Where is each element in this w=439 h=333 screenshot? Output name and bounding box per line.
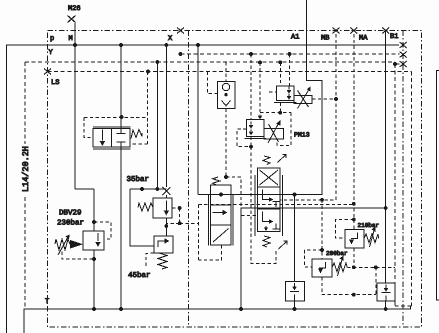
valve 2/2 pilot operated body	[93, 129, 130, 148]
PM13 left box flange	[245, 138, 266, 140]
plug X LS	[44, 69, 51, 75]
svg-text:LS: LS	[51, 79, 59, 87]
center valve bottom cell elbows	[263, 212, 271, 222]
dashed stub y215 under center valve	[241, 214, 258, 216]
svg-text:p: p	[50, 35, 54, 43]
left valve below dashed	[198, 205, 221, 261]
svg-text:45bar: 45bar	[128, 271, 151, 280]
DBV29 pilot dashed	[62, 222, 111, 259]
relief valve 210bar body	[345, 230, 364, 249]
relief 200bar spring	[332, 263, 347, 272]
shuttle check seat arrow	[222, 101, 231, 106]
PM13 right pilot loop dashed	[277, 103, 291, 146]
svg-text:X: X	[168, 35, 173, 43]
MB pilot line dashed	[281, 34, 337, 200]
throttle X on 35bar line	[162, 187, 170, 195]
test point X M26	[68, 16, 76, 23]
top right variable throttle body	[294, 96, 312, 104]
relief 45bar drain dashed	[146, 253, 154, 268]
svg-text:DBV29: DBV29	[59, 209, 82, 218]
wire LS dashed rail y54	[180, 53, 399, 55]
dash-dot section divider	[188, 31, 190, 328]
wire right dashed drop x395	[394, 64, 396, 306]
directional valve center body	[258, 168, 281, 232]
svg-text:200bar: 200bar	[326, 250, 348, 257]
svg-text:Y: Y	[49, 49, 54, 57]
relief valve DBV29 body	[83, 231, 104, 250]
left valve top spring	[213, 177, 220, 185]
inner dash-dot boundary right edge	[402, 31, 404, 328]
PM13 left pilot loop dashed	[237, 129, 251, 147]
relief 35bar spring	[138, 203, 153, 211]
pilot dashed bridge y112.7	[260, 112, 291, 114]
center valve mid cell elbows	[263, 190, 271, 200]
svg-text:L14/20.2H: L14/20.2H	[21, 146, 31, 192]
relief 210bar internal arrow	[351, 233, 358, 239]
center valve bottom spring	[263, 236, 270, 247]
wire T return line	[24, 306, 411, 333]
relief valve 35bar body	[153, 198, 172, 218]
left valve bottom diagonal	[213, 229, 229, 243]
svg-text:210bar: 210bar	[358, 222, 380, 229]
wire Y dashed rail y62	[25, 62, 395, 64]
plug X MB	[333, 28, 340, 34]
svg-text:230bar: 230bar	[57, 219, 84, 228]
shuttle check ball	[222, 83, 229, 90]
wire x198 P to A-rail	[197, 45, 199, 195]
wire x157 from LS rail down	[156, 62, 158, 189]
wire 35bar feed x166	[165, 45, 167, 236]
wire dashed shuttle to B corner	[226, 177, 241, 208]
shuttle check valve body	[218, 82, 235, 109]
center valve top spring	[263, 156, 270, 165]
center valve dashed wrap below	[251, 147, 276, 264]
relief 45bar spring	[158, 253, 167, 269]
svg-text:MB: MB	[321, 35, 329, 43]
dash-dot block boundary box	[48, 31, 422, 328]
relief 200bar drain dashed	[322, 277, 376, 295]
relief 45bar internal arrow	[158, 241, 165, 247]
wire B rail y208 and down to T	[241, 208, 386, 309]
svg-text:B1: B1	[390, 33, 398, 41]
wire M26 down to M port and DBV29	[75, 23, 94, 231]
wire Y line left drop x25	[24, 62, 26, 308]
svg-text:M26: M26	[68, 5, 81, 13]
outer solid frame border	[7, 45, 400, 333]
center valve bottom lever	[279, 242, 287, 250]
relief valve 210bar pilot loop dashed	[336, 220, 354, 239]
wire valve line x121	[120, 45, 122, 309]
DBV29 spring	[55, 239, 70, 250]
wire right dashed drop x411.5	[395, 72, 412, 307]
relief valve 45bar body	[154, 236, 173, 253]
relief 35bar pilot dashed	[166, 208, 198, 223]
top right valve pilot feeds dashed	[280, 54, 289, 86]
wire B1 port line	[385, 31, 387, 309]
relief 200bar internal arrow	[319, 262, 326, 268]
top right valve left stub dashed	[269, 91, 277, 93]
wire LS dashed rail y71.5	[48, 71, 412, 73]
valve 2/2 pilot dashed lines	[84, 72, 148, 145]
wire DBV29 outlet down to T	[93, 250, 95, 309]
valve 2/2 spring	[131, 130, 142, 139]
svg-text:PM13: PM13	[294, 132, 310, 139]
wire dashed x322 down to 200bar relief	[321, 200, 323, 259]
relief 35bar internal arrow	[165, 201, 167, 212]
relief 200bar adjust arrow	[338, 258, 343, 276]
PM13 pilot arrow from x260	[259, 62, 261, 115]
svg-text:MA: MA	[359, 35, 368, 43]
right edge partial block	[437, 71, 439, 301]
relief 210bar spring	[364, 234, 379, 243]
top right throttle output dashed	[312, 98, 336, 100]
top right valve internal arrows	[288, 87, 290, 97]
relief 210bar adjust arrow	[370, 229, 375, 247]
svg-text:M: M	[69, 35, 73, 43]
relief 200bar pilot loop dashed	[305, 250, 323, 267]
shuttle pilot dashed connections	[207, 62, 226, 177]
valve 2/2 right cell blocked	[117, 129, 126, 148]
PM13 through arrow	[250, 122, 252, 132]
drain mesh dashed right bottom	[347, 267, 395, 294]
valve 2/2 left cell flow arrow	[101, 130, 103, 141]
left valve mid arrow	[213, 212, 224, 214]
top right throttle X diagonal arrow	[298, 89, 310, 109]
directional valve left body	[211, 185, 232, 245]
wire plugged stub y54 solid end	[395, 63, 400, 65]
PM13 throttle X diagonal arrow	[268, 123, 279, 144]
reducing valve top right body	[277, 86, 295, 101]
relief 210bar outlet dashed	[353, 248, 355, 267]
wire A1 from top + A-rail y194.5	[198, 0, 322, 195]
DBV29 adjust arrow	[58, 237, 68, 255]
relief valve 200bar body	[312, 259, 332, 277]
plug X MA	[350, 28, 357, 34]
center valve top cell X	[260, 170, 279, 185]
svg-text:35bar: 35bar	[127, 175, 150, 184]
plug X port X on boundary	[177, 28, 184, 34]
plug orifice box left	[285, 282, 304, 301]
plug X right stub y45	[400, 42, 407, 48]
DBV29 pilot cone	[70, 240, 83, 249]
svg-text:A1: A1	[291, 34, 299, 42]
plug X right stub y64	[400, 61, 407, 67]
svg-text:T: T	[45, 298, 49, 306]
LS bridge dashed y204	[198, 204, 353, 206]
center valve top lever	[278, 155, 286, 163]
PM13 variable throttle body	[264, 129, 283, 140]
DBV29 internal arrow	[97, 233, 99, 241]
plug orifice box right B1	[377, 283, 395, 301]
plug X B1	[382, 28, 389, 34]
MA pilot line dashed	[353, 34, 355, 230]
wire 35bar left loop	[130, 189, 166, 246]
PM13 main dashed feed x251	[250, 54, 252, 147]
plug X right stub y54	[400, 52, 407, 58]
pressure reducing PM13 left body	[247, 120, 264, 137]
wire x294.5 down to plug box and T	[294, 195, 296, 310]
